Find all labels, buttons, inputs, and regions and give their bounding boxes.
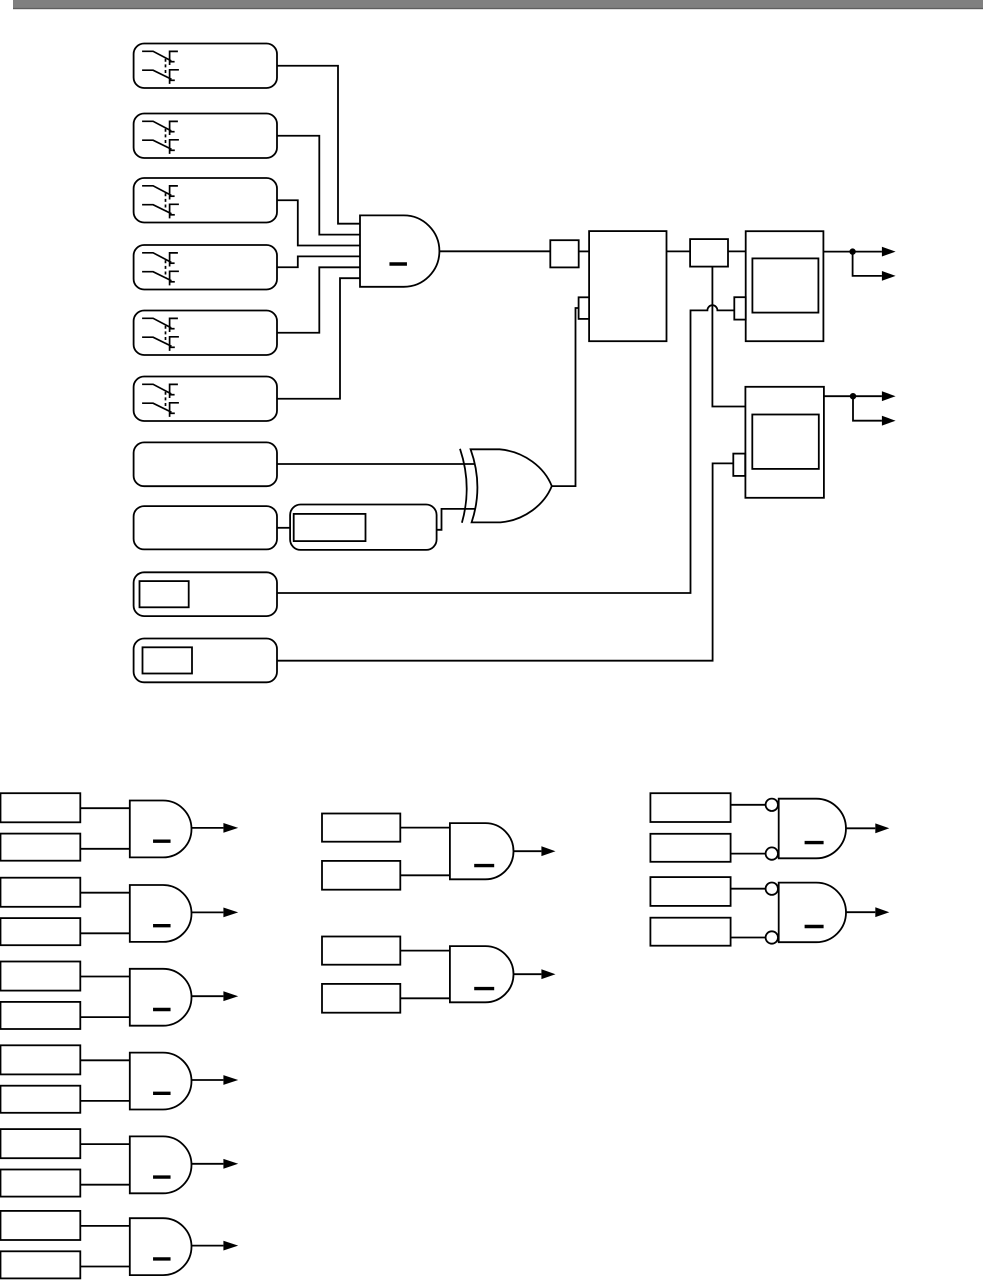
wire U1 output to timer T1 <box>439 250 550 252</box>
wire A5 to gate U7 <box>80 1143 130 1145</box>
junction dot at K2 output <box>849 248 855 254</box>
input register A4 <box>1 1045 81 1074</box>
wire T1 to function block K1 <box>579 250 589 252</box>
input register A1 <box>1 793 81 822</box>
and gate U12 (negated inputs) <box>779 883 846 943</box>
wire D2 to gate U10 <box>400 997 450 999</box>
output arrow Q1 <box>882 247 896 257</box>
input register B4 <box>1 1086 81 1113</box>
inner window of B10 <box>143 647 193 673</box>
input block B10 <box>134 639 277 683</box>
block T2 (small square) <box>690 239 728 267</box>
output block K3 <box>745 387 824 498</box>
branch wire to arrow Q4 <box>853 396 882 421</box>
wire K3 output <box>824 395 882 397</box>
function block K1 <box>589 231 666 341</box>
input register B3 <box>1 1002 81 1029</box>
input contact block S2 (dual break-contact switch) <box>134 114 277 159</box>
input register D2 <box>322 984 400 1013</box>
input register B2 <box>1 918 81 945</box>
inversion bubble on F2 input <box>766 931 778 943</box>
and gate U5 <box>130 969 192 1026</box>
wire S6 to U1 input 6 <box>277 278 360 399</box>
and gate U9 <box>450 823 514 879</box>
gate U3 state mark <box>153 840 171 843</box>
wire B1 to gate U3 <box>80 848 130 850</box>
wire U2 output to K1 tab <box>552 308 579 486</box>
and gate U11 (negated inputs) <box>779 799 846 859</box>
junction dot at K3 output <box>850 393 856 399</box>
and gate U10 <box>450 946 514 1002</box>
inversion bubble on E1 input <box>766 799 778 811</box>
input register E2 <box>650 877 730 906</box>
input register B6 <box>1 1251 81 1278</box>
and gate U6 <box>130 1053 192 1110</box>
wire C2 to gate U10 <box>400 950 450 952</box>
wire T2 to output block K2 <box>728 250 746 252</box>
output arrow of U3 <box>192 827 224 829</box>
inner window of B8a <box>294 514 366 541</box>
wire S2 to U1 input 2 <box>277 136 360 235</box>
wire B5 to gate U7 <box>80 1184 130 1186</box>
input contact block S3 (dual break-contact switch) <box>134 178 277 223</box>
gate U11 state mark <box>805 841 824 844</box>
inner window of K2 <box>752 258 818 312</box>
wire B9 to K2 tab (with hop) <box>277 305 734 593</box>
wire F1 to gate U11 <box>731 853 766 855</box>
output arrow of U4 <box>192 911 224 913</box>
wire B4 to gate U6 <box>80 1100 130 1102</box>
input register F1 <box>650 834 730 862</box>
output arrow Q3 <box>882 391 896 401</box>
wire D1 to gate U9 <box>400 874 450 876</box>
wire A4 to gate U6 <box>80 1059 130 1061</box>
enable tab on K2 <box>734 297 745 319</box>
input register C1 <box>322 814 400 842</box>
output arrow Q2 <box>882 271 896 281</box>
block T1 (small square) <box>550 240 578 267</box>
wire T2 down to output block K3 <box>712 267 745 407</box>
wire S5 to U1 input 5 <box>277 267 360 332</box>
input block B8 <box>134 506 277 549</box>
gate U10 state mark <box>474 987 494 990</box>
wire C1 to gate U9 <box>400 827 450 829</box>
input contact block S6 (dual break-contact switch) <box>134 377 277 422</box>
wire B10 to K3 tab <box>277 463 733 660</box>
output arrow Q4 <box>882 416 896 426</box>
output arrow of U9 <box>514 850 542 852</box>
enable tab on K1 <box>579 297 590 319</box>
input contact block S4 (dual break-contact switch) <box>134 245 277 290</box>
and gate U3 <box>130 801 192 858</box>
input block B9 <box>134 572 277 616</box>
inner window of K3 <box>752 415 819 469</box>
output arrow of U7 <box>192 1163 224 1165</box>
input contact block S1 (dual break-contact switch) <box>134 44 277 89</box>
gate U7 state mark <box>153 1175 171 1178</box>
gate U8 state mark <box>153 1257 171 1260</box>
inner window of B9 <box>140 581 189 607</box>
and gate U1 (6-input) <box>360 215 439 286</box>
wire B8 to block B8a <box>277 527 290 529</box>
output arrow of U11 <box>846 827 875 829</box>
gate U9 state mark <box>474 864 494 867</box>
and gate U7 <box>130 1136 192 1193</box>
wire A3 to gate U5 <box>80 976 130 978</box>
gate U6 state mark <box>153 1092 171 1095</box>
input register B5 <box>1 1170 81 1197</box>
wire B6 to gate U8 <box>80 1266 130 1268</box>
input register D1 <box>322 861 400 890</box>
gate U12 state mark <box>805 925 824 928</box>
wire A1 to gate U3 <box>80 807 130 809</box>
and gate U8 <box>130 1218 192 1275</box>
gate U4 state mark <box>153 924 171 927</box>
wire S3 to U1 input 3 <box>277 200 360 245</box>
xor gate U2 input arc <box>460 449 467 523</box>
gate U5 state mark <box>153 1008 171 1011</box>
gate U1 state mark <box>389 262 407 265</box>
and gate U4 <box>130 885 192 942</box>
output arrow of U12 <box>846 911 875 913</box>
inversion bubble on E2 input <box>766 883 778 895</box>
input register A6 <box>1 1211 81 1240</box>
wire B2 to gate U4 <box>80 932 130 934</box>
input register F2 <box>650 918 730 946</box>
wire A6 to gate U8 <box>80 1225 130 1227</box>
input register A2 <box>1 878 81 907</box>
output arrow of U6 <box>192 1079 224 1081</box>
enable tab on K3 <box>733 454 745 476</box>
branch wire to arrow Q2 <box>853 252 882 276</box>
output block K2 <box>746 231 824 341</box>
gray header bar <box>13 0 983 8</box>
input register A3 <box>1 962 81 991</box>
input block B7 <box>134 442 277 486</box>
wire S1 to U1 input 1 <box>277 66 360 224</box>
wire F2 to gate U12 <box>731 937 766 939</box>
input register A5 <box>1 1129 81 1158</box>
output arrow of U8 <box>192 1245 224 1247</box>
input register B1 <box>1 834 81 861</box>
input contact block S5 (dual break-contact switch) <box>134 311 277 356</box>
xor gate U2 body <box>471 449 552 522</box>
wire B7 to XOR gate U2 <box>277 463 474 465</box>
output arrow of U5 <box>192 995 224 997</box>
wire B8a to XOR gate U2 <box>437 509 475 530</box>
output arrow of U10 <box>514 973 542 975</box>
wire E1 to gate U11 <box>731 804 766 806</box>
wire K2 output <box>823 251 882 253</box>
wire S4 to U1 input 4 <box>277 256 360 267</box>
input register E1 <box>650 793 730 822</box>
input register C2 <box>322 937 400 965</box>
block B8a (with inner window) <box>290 505 437 550</box>
inversion bubble on F1 input <box>766 847 778 859</box>
wire E2 to gate U12 <box>731 888 766 890</box>
wire B3 to gate U5 <box>80 1016 130 1018</box>
wire K1 to T2 <box>667 250 691 252</box>
wire A2 to gate U4 <box>80 892 130 894</box>
